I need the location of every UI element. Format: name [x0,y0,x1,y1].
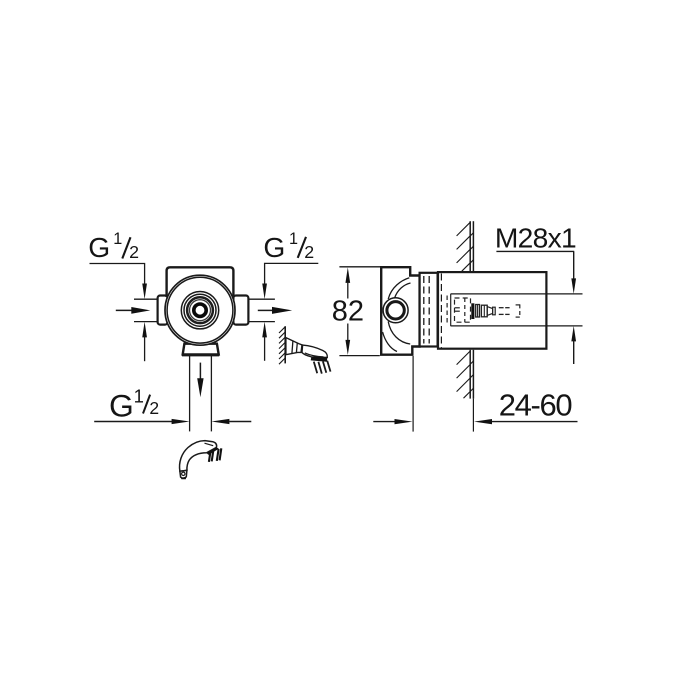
24-60 dimension left segment right arrow [373,421,395,423]
82 dimension extension lines [339,266,381,268]
svg-text:1: 1 [113,230,122,248]
bottom port [183,344,219,355]
side port circle outer [383,298,408,323]
wall bracket shower spray lines [314,361,331,374]
M28x1 up arrow [571,326,576,342]
G1/2 top-left down arrow [142,284,147,300]
hand shower head top line [205,443,214,446]
wall bracket shower holder cone [286,338,303,355]
cartridge ring r10.6 [190,300,211,321]
wall upper section lines [469,221,471,271]
side port circle ring [387,302,404,319]
flow arrow left inlet [116,309,133,311]
G1/2 top-right up arrow [262,322,267,338]
svg-text:M28x1: M28x1 [495,221,576,253]
G1/2 top-right leader line [265,263,319,284]
cartridge screw [481,305,487,317]
body inner rim circle [167,277,233,343]
flow arrow right outlet [258,309,274,311]
flow arrow bottom outlet [199,363,201,380]
G1/2 top-left label text [88,230,139,263]
wall lower section lines [469,350,471,399]
hand shower face band [206,447,219,455]
G1/2 top-right label text [263,230,314,263]
svg-text:1: 1 [134,386,144,407]
24-60 dimension right segment left arrow [492,421,578,423]
wall lower hatching [457,351,474,398]
side view valve body [381,267,419,355]
bore lines [451,293,583,295]
wall upper hatching [457,222,474,271]
svg-text:1: 1 [289,230,298,248]
hand shower end cap [180,470,187,478]
82 dimension line and arrows [345,267,350,283]
cartridge ring r18.7 [181,292,218,329]
svg-text:G: G [109,387,134,423]
wall bracket head face inner line [305,353,324,357]
wall bracket shower icon wall line [284,326,286,363]
svg-text:G: G [263,231,285,263]
wall bracket hatching [279,327,285,364]
cartridge ring r12.9 [187,297,213,323]
M28x1 down arrow [571,278,576,294]
cartridge right bracket dashed [516,304,520,317]
wall bracket shower face band [311,357,328,362]
G1/2 top-left leader line [90,264,145,284]
svg-text:24-60: 24-60 [499,387,573,422]
cartridge solid bar [471,303,474,319]
svg-text:G: G [88,231,110,263]
wall bracket holder ribs [292,341,302,354]
svg-text:2: 2 [304,242,314,262]
bottom port thick base [182,354,219,357]
right pipe wall lines [249,298,275,300]
M28x1 underline and leader [496,251,574,278]
left port tab G1/2 [158,296,168,325]
cartridge ring r16 [184,294,216,326]
bottom dimension line right segment with left arrow [229,421,251,423]
bottom pipe lines [189,356,191,432]
svg-text:2: 2 [149,398,159,418]
body outer circle [165,275,235,345]
threaded sleeve cylinder [438,272,546,349]
bottom dimension line left segment with right arrow [94,421,172,423]
cartridge hidden detail [447,294,470,326]
wall bracket shower head [302,345,327,357]
G1/2 top-left up arrow [142,322,147,338]
valve body front square [167,267,234,297]
24-60 extension line from body [412,356,414,432]
body casting curves [383,278,411,352]
G1/2 top-right down arrow [262,284,267,300]
collar union nut [420,273,438,347]
G1/2 bottom label text [109,386,159,424]
hub black ring [194,304,206,316]
sleeve hidden edge dashed [440,274,442,348]
hand shower icon handle [180,441,217,472]
hand shower spray tufts [209,448,221,462]
24-60 extension line from wall [472,399,474,432]
svg-text:2: 2 [129,242,139,262]
cartridge seat rect [476,305,480,318]
cartridge equals dashes [499,308,510,315]
svg-text:82: 82 [332,296,364,328]
left pipe wall lines [134,298,158,300]
collar thread dashed lines [423,276,425,344]
right port tab G1/2 [233,296,248,325]
